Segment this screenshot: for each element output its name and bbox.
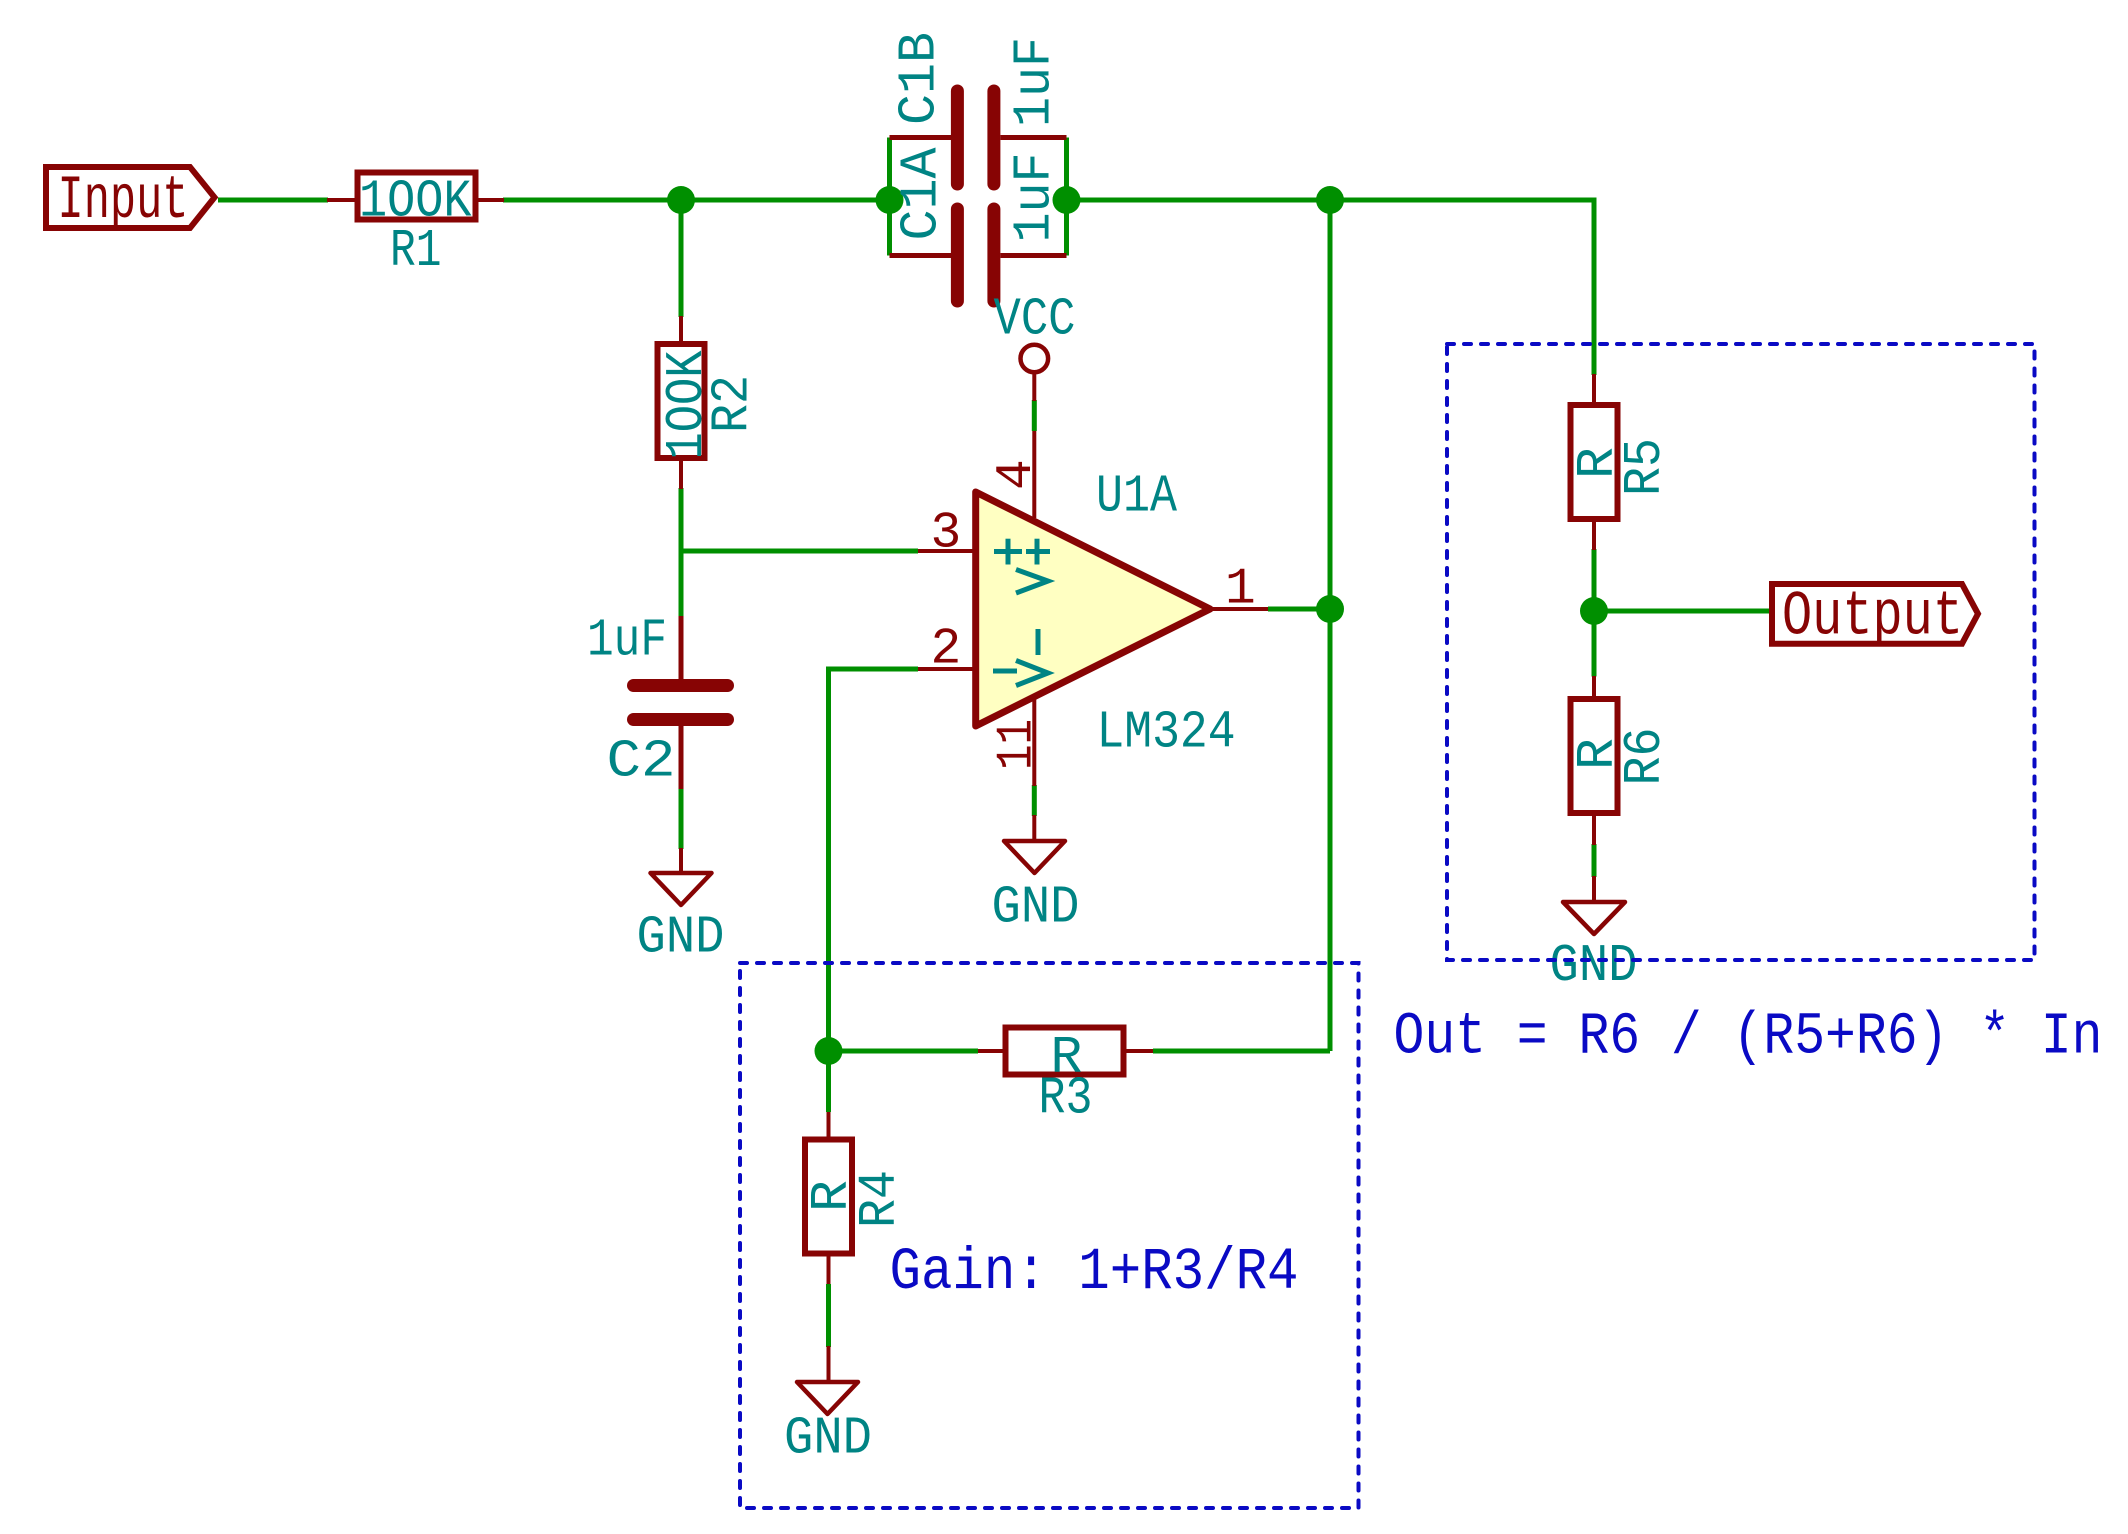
wire Input to R1 xyxy=(218,198,328,203)
power VCC circle xyxy=(1021,345,1049,373)
capacitor C1B plate right xyxy=(987,91,1000,184)
resistor R5 pin bottom xyxy=(1592,519,1596,550)
wire node A down to C2 xyxy=(679,551,684,617)
wire VCC to pin4 xyxy=(1032,400,1037,431)
capacitor C1B plate left xyxy=(951,91,964,184)
note box gain stage xyxy=(740,963,1359,1508)
svg-text:Out = R6 / (R5+R6) * In: Out = R6 / (R5+R6) * In xyxy=(1394,1004,2103,1071)
op-amp pin 2 stub xyxy=(918,667,976,671)
op-amp minus mark pin2 xyxy=(993,669,1017,674)
junction C1 right xyxy=(1053,186,1081,214)
junction op-amp output xyxy=(1316,595,1344,623)
svg-text:VCC: VCC xyxy=(994,290,1076,350)
op-amp pin 1 stub xyxy=(1208,607,1268,611)
wire R6 to GND xyxy=(1592,844,1597,877)
ground op-amp symbol xyxy=(1004,841,1065,873)
resistor R2 body xyxy=(658,344,705,458)
resistor R4 pin bottom xyxy=(827,1253,831,1284)
wire op-amp pin1 to feedback junction xyxy=(1268,607,1330,612)
wire C1 right junction to corner xyxy=(1067,198,1595,203)
svg-text:3: 3 xyxy=(931,505,962,563)
svg-text:1uF: 1uF xyxy=(587,611,667,671)
svg-text:U1A: U1A xyxy=(1096,467,1177,527)
wire C1 left vertical xyxy=(887,138,892,256)
svg-text:GND: GND xyxy=(1550,936,1638,996)
global label Input outline xyxy=(46,167,215,228)
resistor R6 pin bottom xyxy=(1592,813,1596,845)
op-amp pin 11 stub xyxy=(1032,697,1036,786)
svg-text:Input: Input xyxy=(58,167,189,236)
wire pin11 to GND xyxy=(1032,785,1037,816)
junction feedback top xyxy=(1316,186,1344,214)
svg-text:R4: R4 xyxy=(850,1170,910,1228)
capacitor C2 lead top xyxy=(679,616,684,680)
svg-text:2: 2 xyxy=(931,621,962,679)
svg-text:4: 4 xyxy=(988,459,1046,490)
svg-text:C1B: C1B xyxy=(890,32,950,125)
resistor R4 body xyxy=(805,1140,852,1254)
wire feedback to R3 right xyxy=(1153,1049,1330,1054)
svg-text:GND: GND xyxy=(992,878,1080,938)
resistor R4 pin top xyxy=(827,1112,831,1140)
svg-text:11: 11 xyxy=(989,719,1047,770)
capacitor C1A lead left xyxy=(890,253,952,258)
op-amp pin 4 stub xyxy=(1032,431,1036,518)
wire C1 right vertical xyxy=(1064,138,1069,256)
wire C2 to GND xyxy=(679,788,684,849)
svg-text:Gain: 1+R3/R4: Gain: 1+R3/R4 xyxy=(890,1239,1299,1306)
wire node A to op-amp pin3 xyxy=(681,549,918,554)
resistor R3 pin left xyxy=(978,1049,1006,1053)
ground op-amp lead xyxy=(1032,815,1036,840)
junction divider tap xyxy=(1580,597,1608,625)
resistor R1 pin right xyxy=(476,198,505,202)
svg-text:1uF: 1uF xyxy=(1004,37,1064,127)
svg-text:C2: C2 xyxy=(607,732,676,792)
op-amp pin4 name V+ xyxy=(1026,549,1050,554)
resistor R6 pin top xyxy=(1592,676,1596,700)
svg-text:GND: GND xyxy=(784,1409,872,1469)
resistor R3 body xyxy=(1006,1028,1124,1075)
wire inverting vertical x=828 xyxy=(826,667,831,1052)
wire R5 to divider junction xyxy=(1592,549,1597,677)
ground R4 symbol xyxy=(797,1382,858,1414)
ground R6 symbol xyxy=(1563,902,1625,934)
junction node B xyxy=(815,1037,843,1065)
svg-text:1uF: 1uF xyxy=(1004,153,1064,243)
op-amp pin 3 stub xyxy=(918,549,976,553)
capacitor C2 plate top xyxy=(634,679,728,692)
svg-text:R1: R1 xyxy=(390,221,442,281)
wire feedback vertical x=1330 xyxy=(1328,200,1333,1051)
op-amp plus mark pin3 xyxy=(994,549,1022,554)
capacitor C1A plate right xyxy=(987,209,1000,301)
power VCC stem xyxy=(1032,373,1036,402)
resistor R1 body xyxy=(358,173,476,220)
resistor R1 pin left xyxy=(327,198,357,202)
capacitor C1B lead left xyxy=(890,135,952,140)
resistor R5 body xyxy=(1571,405,1618,519)
svg-text:R3: R3 xyxy=(1039,1069,1093,1129)
capacitor C2 plate bottom xyxy=(634,713,728,726)
svg-text:LM324: LM324 xyxy=(1097,703,1236,763)
global label Output outline xyxy=(1772,584,1978,644)
svg-text:Output: Output xyxy=(1782,582,1963,654)
resistor R2 pin top xyxy=(679,316,683,344)
svg-text:R6: R6 xyxy=(1615,728,1675,786)
ground under C2 lead xyxy=(679,848,683,872)
note box output divider xyxy=(1447,344,2035,960)
capacitor C1A plate left xyxy=(951,209,964,301)
resistor R6 body xyxy=(1571,699,1618,813)
wire R1 to C1 left junction xyxy=(503,198,890,203)
svg-text:C1A: C1A xyxy=(892,147,952,240)
capacitor C2 lead bottom xyxy=(679,726,684,789)
resistor R2 pin bottom xyxy=(679,458,683,489)
ground R6 lead xyxy=(1592,876,1596,901)
junction R1/R2 node xyxy=(667,186,695,214)
ground R4 lead xyxy=(827,1346,831,1381)
capacitor C1B lead right xyxy=(1001,135,1067,140)
svg-text:1: 1 xyxy=(1225,561,1256,619)
wire divider junction to Output label xyxy=(1594,609,1769,614)
op-amp pin11 name V- xyxy=(1036,629,1041,655)
wire R4 to GND xyxy=(826,1284,831,1347)
op-amp U1A body xyxy=(976,492,1210,726)
wire junction1 down to R2 xyxy=(679,200,684,317)
wire R3 left to inverting node xyxy=(829,1049,979,1054)
ground under C2 symbol xyxy=(651,873,712,905)
resistor R5 pin top xyxy=(1592,374,1596,405)
resistor R3 pin right xyxy=(1123,1049,1153,1053)
wire node B down to R4 xyxy=(826,1051,831,1112)
junction C1 left xyxy=(876,186,904,214)
wire R2 to node A junction xyxy=(679,488,684,551)
wire main top corner down to R5 xyxy=(1592,198,1597,376)
svg-text:GND: GND xyxy=(637,908,725,968)
svg-text:R2: R2 xyxy=(702,375,762,433)
capacitor C1A lead right xyxy=(1001,253,1067,258)
wire pin2 horizontal xyxy=(829,667,919,672)
svg-text:R5: R5 xyxy=(1615,438,1675,496)
